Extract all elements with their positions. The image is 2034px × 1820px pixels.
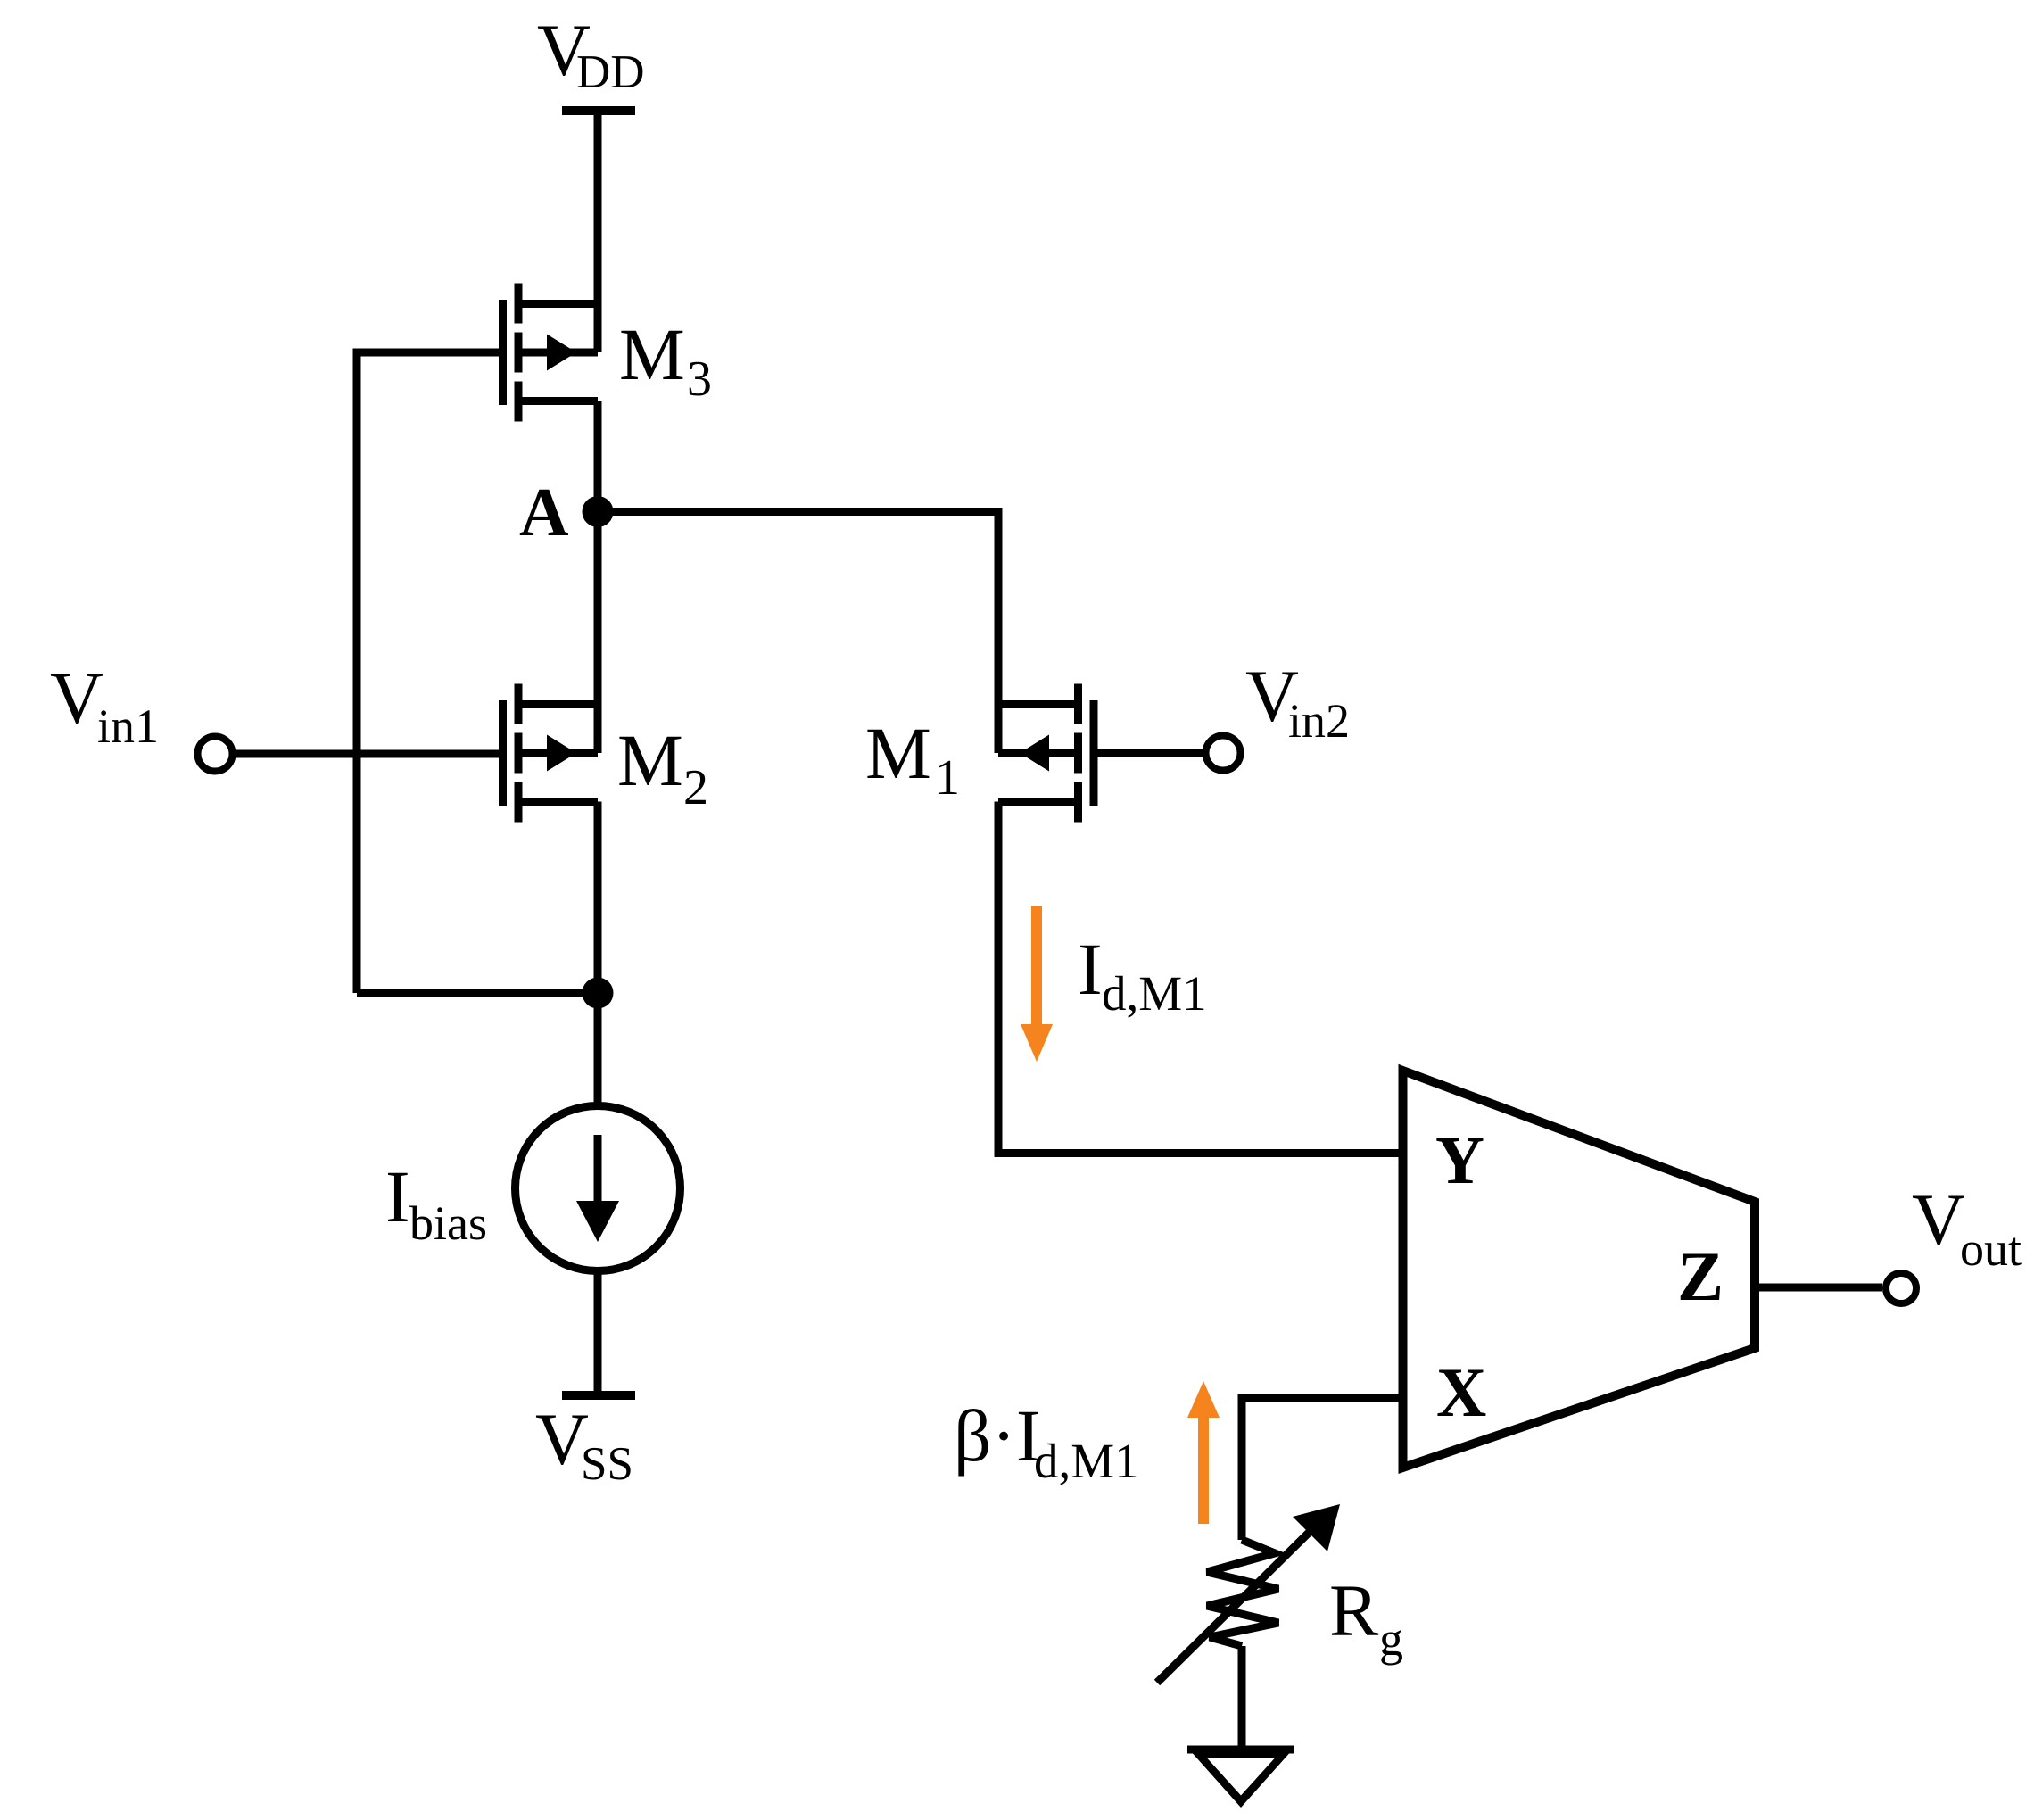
current source Ibias arrow head — [576, 1201, 619, 1242]
svg-text:Y: Y — [1435, 1123, 1484, 1198]
transistor M1 body line — [998, 749, 1079, 757]
transistor M1 channel dashed segment middle — [1074, 733, 1082, 773]
svg-text:M: M — [865, 712, 931, 794]
svg-text:R: R — [1329, 1569, 1379, 1651]
ground triangle outer — [1189, 1750, 1293, 1808]
transistor M1 drain line — [998, 700, 1079, 708]
wire resistor to ground — [1238, 1646, 1246, 1747]
svg-text:in2: in2 — [1288, 694, 1350, 748]
resistor Rg zigzag — [1207, 1540, 1278, 1646]
wire feedback vertical M3 gate to bottom junction — [353, 349, 361, 994]
svg-text:2: 2 — [683, 760, 708, 815]
transistor M2 source line — [518, 798, 598, 806]
transistor M2 body arrow — [547, 735, 576, 772]
transistor M3 channel dashed segment bottom — [515, 382, 523, 422]
ground bar — [1187, 1746, 1294, 1754]
transistor M2 gate bar — [499, 700, 507, 806]
transistor M3 body arrow — [547, 335, 576, 371]
node A junction dot — [583, 496, 614, 527]
terminal Vout circle — [1886, 1273, 1916, 1303]
resistor Rg adjustment arrow head — [1293, 1504, 1340, 1551]
svg-text:V: V — [1912, 1179, 1965, 1261]
ground triangle inner white — [1207, 1758, 1275, 1796]
transistor M3 gate bar — [499, 300, 507, 405]
transistor M1 source line — [998, 798, 1079, 806]
svg-text:3: 3 — [687, 352, 712, 407]
svg-text:I: I — [385, 1155, 410, 1237]
svg-text:SS: SS — [581, 1438, 633, 1490]
svg-text:bias: bias — [409, 1196, 487, 1250]
svg-text:DD: DD — [576, 46, 645, 98]
svg-text:V: V — [50, 657, 103, 739]
wire Vin1 terminal to M2 gate — [235, 750, 499, 758]
svg-text:X: X — [1436, 1353, 1486, 1431]
wire node A down to M2 drain/body — [594, 511, 602, 753]
power rail VDD bar — [562, 106, 635, 115]
svg-text:I: I — [1078, 928, 1103, 1010]
transistor M3 source line — [518, 397, 598, 405]
transistor M3 body line — [518, 349, 598, 357]
wire VDD to M3 drain/body — [594, 111, 602, 352]
svg-text:in1: in1 — [97, 699, 159, 753]
svg-text:β·I: β·I — [954, 1394, 1041, 1477]
resistor Rg adjustment arrow shaft — [1157, 1528, 1313, 1683]
wire current source to VSS — [594, 1271, 602, 1393]
svg-text:M: M — [617, 719, 683, 801]
svg-text:M: M — [619, 313, 685, 395]
transistor M1 channel dashed segment bottom — [1074, 782, 1082, 823]
svg-text:d,M1: d,M1 — [1034, 1434, 1139, 1488]
transistor M2 body line — [518, 749, 598, 757]
wire to conveyor Y input — [995, 1149, 1401, 1157]
terminal Vin1 circle — [198, 737, 233, 772]
wire M3 gate lead — [357, 349, 499, 357]
transistor M2 channel dashed segment middle — [515, 733, 523, 773]
terminal Vin2 circle — [1206, 736, 1241, 771]
wire conveyor X input horizontal — [1242, 1394, 1401, 1402]
current source Ibias circle — [516, 1106, 681, 1271]
transistor M1 gate bar — [1090, 700, 1098, 806]
power rail VSS bar — [562, 1391, 635, 1400]
transistor M2 channel dashed segment bottom — [515, 782, 523, 823]
current arrow Id,M1 shaft (orange) — [1031, 906, 1042, 1028]
svg-text:out: out — [1960, 1222, 2022, 1276]
wire node A to right branch — [593, 508, 998, 516]
svg-text:A: A — [519, 474, 569, 550]
svg-text:1: 1 — [935, 750, 960, 806]
svg-text:d,M1: d,M1 — [1102, 966, 1207, 1021]
wire M1 source down — [995, 802, 1003, 1154]
transistor M2 drain line — [518, 700, 598, 708]
svg-text:Z: Z — [1677, 1237, 1724, 1315]
wire right branch down to M1 drain/body — [995, 508, 1003, 753]
transistor M3 channel dashed segment middle — [515, 333, 523, 373]
current source Ibias arrow shaft — [594, 1135, 602, 1204]
wire M3 source to node A — [594, 401, 602, 512]
current conveyor U1 trapezoid body — [1403, 1071, 1756, 1468]
bottom junction dot — [583, 978, 614, 1009]
wire M2 source to bottom junction — [594, 802, 602, 994]
transistor M1 body arrow — [1020, 735, 1049, 772]
svg-text:g: g — [1379, 1612, 1403, 1666]
current arrow beta*Id,M1 head (orange) — [1187, 1381, 1220, 1418]
current arrow beta*Id,M1 shaft (orange) — [1198, 1418, 1209, 1524]
wire X node down to resistor — [1238, 1394, 1246, 1540]
wire junction to current source — [594, 993, 602, 1106]
current arrow Id,M1 head (orange) — [1021, 1024, 1053, 1062]
transistor M3 drain line — [518, 300, 598, 308]
wire feedback horizontal into junction — [357, 989, 598, 997]
transistor M2 channel dashed segment top — [515, 684, 523, 724]
wire M1 gate to Vin2 terminal — [1097, 749, 1203, 757]
transistor M1 channel dashed segment top — [1074, 684, 1082, 724]
transistor M3 channel dashed segment top — [515, 284, 523, 324]
wire conveyor Z output to Vout terminal — [1757, 1284, 1882, 1292]
